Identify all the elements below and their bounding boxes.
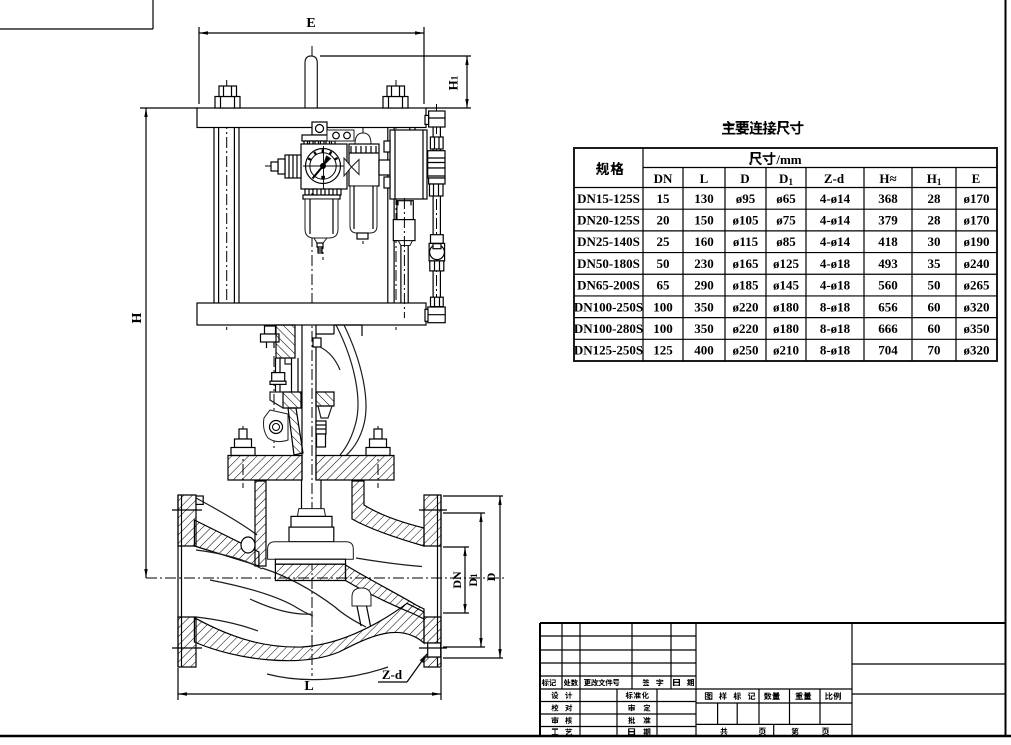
wall hole left	[241, 537, 255, 553]
left pipe bore top line	[196, 550, 262, 569]
svg-text:ø220: ø220	[733, 299, 759, 314]
svg-text:ø180: ø180	[773, 321, 799, 336]
svg-text:/mm: /mm	[775, 152, 801, 167]
tube block stack	[428, 151, 445, 184]
svg-text:8-ø18: 8-ø18	[820, 299, 851, 314]
svg-text:25: 25	[657, 234, 671, 249]
top bolt right	[383, 86, 408, 108]
svg-text:ø320: ø320	[964, 343, 990, 358]
table grid 主要连接尺寸	[574, 148, 997, 361]
svg-text:379: 379	[878, 213, 898, 228]
table data rows	[574, 191, 990, 358]
clamp bolt	[270, 358, 286, 392]
svg-text:ø220: ø220	[733, 321, 759, 336]
dimension D1	[443, 513, 485, 647]
svg-text:DN15-125S: DN15-125S	[577, 191, 640, 206]
svg-text:4-ø14: 4-ø14	[820, 234, 851, 249]
bonnet bolt left	[231, 429, 255, 456]
svg-text:ø180: ø180	[773, 299, 799, 314]
right pipe bore back wall line	[356, 558, 422, 567]
svg-text:70: 70	[928, 343, 941, 358]
svg-text:493: 493	[878, 256, 898, 271]
svg-text:50: 50	[928, 278, 941, 293]
row 设计 标准化	[552, 692, 649, 699]
plug stem lower	[302, 480, 322, 509]
tube bottom fitting	[431, 297, 444, 306]
body upper-left wall	[194, 520, 259, 566]
svg-text:H≈: H≈	[879, 171, 896, 186]
svg-text:290: 290	[694, 278, 714, 293]
centerline valve main vertical	[311, 46, 313, 676]
svg-text:ø165: ø165	[733, 256, 760, 271]
centerline clamp bolt	[273, 356, 275, 450]
svg-text:ø170: ø170	[964, 213, 990, 228]
svg-text:ø320: ø320	[964, 299, 990, 314]
positioner tube	[401, 198, 408, 318]
svg-text:ø75: ø75	[776, 213, 796, 228]
valve stem upper	[302, 325, 316, 480]
dimension D	[443, 496, 503, 658]
travel indicator	[316, 421, 326, 447]
seat diagonal wall	[346, 565, 425, 619]
tube elbow top	[425, 111, 445, 127]
svg-text:DN100-280S: DN100-280S	[574, 321, 643, 336]
tube union mid	[430, 184, 444, 196]
positioner lower blocks	[393, 201, 415, 246]
positioner body	[384, 130, 427, 199]
clamp eye	[264, 410, 289, 442]
centerline lubricator vertical	[362, 127, 364, 244]
lubricator body	[349, 144, 379, 186]
filter bowl	[303, 189, 341, 238]
svg-text:15: 15	[657, 191, 671, 206]
stem clamp right block	[316, 392, 334, 418]
svg-text:ø145: ø145	[773, 278, 800, 293]
centerline tie rod right	[395, 80, 397, 330]
svg-text:350: 350	[694, 321, 714, 336]
svg-text:4-ø18: 4-ø18	[820, 278, 851, 293]
dimension H1	[320, 56, 471, 108]
label Z-d	[378, 654, 427, 682]
lubricator dome	[355, 133, 371, 144]
svg-text:8-ø18: 8-ø18	[820, 343, 851, 358]
svg-text:400: 400	[694, 343, 714, 358]
centerline bonnet bolt right	[377, 426, 379, 488]
svg-text:ø190: ø190	[964, 234, 990, 249]
left pipe bore bottom line	[196, 617, 258, 631]
svg-text:Z-d: Z-d	[824, 171, 845, 186]
svg-text:H: H	[130, 312, 145, 323]
svg-text:65: 65	[657, 278, 671, 293]
stem guide block	[313, 325, 340, 370]
svg-text:4-ø18: 4-ø18	[820, 256, 851, 271]
svg-text:E: E	[306, 16, 315, 31]
frame top-left corner box	[0, 0, 153, 29]
frame right border	[1005, 0, 1007, 737]
clamp arm diagonal	[288, 408, 303, 455]
table header 尺寸/mm	[749, 152, 802, 167]
partition underside curve	[210, 580, 313, 616]
plug body	[268, 542, 354, 564]
table title 主要连接尺寸	[722, 121, 804, 135]
svg-text:ø125: ø125	[773, 256, 800, 271]
svg-text:150: 150	[694, 213, 714, 228]
lubricator outlet nipple	[379, 160, 390, 175]
pressure gauge	[303, 146, 345, 189]
svg-text:ø240: ø240	[964, 256, 990, 271]
centerline air tube vertical	[436, 104, 438, 300]
svg-text:4-ø14: 4-ø14	[820, 213, 851, 228]
drain boss	[352, 588, 371, 626]
svg-text:DN50-180S: DN50-180S	[577, 256, 640, 271]
revision header 标记 处数 更改文件号 签字 日期	[542, 679, 694, 686]
dimension L	[178, 668, 441, 700]
svg-text:8-ø18: 8-ø18	[820, 321, 851, 336]
svg-text:DN65-200S: DN65-200S	[577, 278, 640, 293]
svg-text:H1: H1	[446, 75, 461, 90]
centerline filter vertical	[322, 124, 324, 260]
row 图样标记 数量 重量 比例	[705, 692, 841, 700]
svg-text:ø210: ø210	[773, 343, 799, 358]
yoke hatched column	[276, 325, 298, 392]
svg-text:230: 230	[694, 256, 714, 271]
svg-text:D1: D1	[466, 573, 480, 587]
svg-text:20: 20	[657, 213, 670, 228]
svg-text:418: 418	[878, 234, 898, 249]
centerline tie rod left	[226, 80, 228, 330]
svg-text:350: 350	[694, 299, 714, 314]
bonnet flange	[228, 456, 394, 481]
svg-text:DN: DN	[450, 571, 464, 589]
plug seat ring	[275, 564, 345, 580]
stem clamp left	[270, 392, 301, 408]
tube union upper	[430, 137, 443, 149]
yoke bracket bolt left	[261, 326, 280, 348]
centerline pipe horizontal	[146, 577, 505, 579]
svg-text:ø115: ø115	[733, 234, 759, 249]
row 审核 批准	[552, 717, 651, 724]
svg-text:50: 50	[657, 256, 670, 271]
dimension H	[130, 108, 198, 578]
frame bottom border	[0, 735, 1011, 738]
svg-text:100: 100	[653, 299, 673, 314]
flange bolt hole ticks	[172, 510, 447, 648]
actuator bottom plate	[197, 303, 426, 325]
row 工艺 日期	[552, 728, 651, 735]
svg-text:DN: DN	[654, 171, 673, 186]
tube ball valve	[429, 235, 445, 271]
svg-text:E: E	[972, 171, 981, 186]
svg-text:ø95: ø95	[736, 191, 756, 206]
centerline air set gauge horizontal	[265, 165, 392, 167]
bonnet neck right and wall to right flange	[352, 481, 424, 546]
svg-text:DN20-125S: DN20-125S	[577, 213, 640, 228]
centerline bonnet bolt left	[242, 426, 244, 488]
svg-text:D: D	[740, 171, 749, 186]
bonnet neck left	[255, 481, 266, 566]
Z-d bolt hole	[428, 643, 441, 657]
left flange	[178, 495, 203, 667]
right flange	[424, 495, 441, 667]
row 校对 审定	[552, 704, 651, 711]
actuator stem cap	[305, 56, 317, 108]
svg-text:ø250: ø250	[733, 343, 759, 358]
svg-text:D: D	[484, 572, 498, 581]
body bottom shell line	[267, 667, 388, 680]
svg-text:28: 28	[928, 213, 942, 228]
svg-text:4-ø14: 4-ø14	[820, 191, 851, 206]
row 共页 第页	[720, 728, 829, 735]
svg-text:100: 100	[653, 321, 673, 336]
svg-text:H1: H1	[927, 171, 942, 187]
svg-text:ø65: ø65	[776, 191, 796, 206]
svg-text:ø350: ø350	[964, 321, 990, 336]
svg-text:ø185: ø185	[733, 278, 760, 293]
table sub-headers DN L D D1 Z-d H H1 E	[654, 171, 981, 187]
regulator inlet nipple	[271, 155, 301, 178]
title block grid	[540, 623, 1005, 736]
actuator top plate	[197, 108, 426, 128]
svg-text:ø170: ø170	[964, 191, 990, 206]
svg-text:DN100-250S: DN100-250S	[574, 299, 643, 314]
svg-text:60: 60	[928, 321, 941, 336]
dimension DN	[443, 547, 469, 613]
partition upper curve	[262, 568, 366, 627]
table header 规格	[596, 162, 624, 175]
svg-text:D1: D1	[779, 171, 793, 187]
svg-text:ø105: ø105	[733, 213, 760, 228]
tube bottom elbow	[425, 307, 445, 323]
lubricator bowl	[350, 186, 377, 239]
svg-text:35: 35	[928, 256, 942, 271]
regulator body	[301, 144, 347, 189]
plug coupling discs	[289, 509, 334, 542]
svg-text:125: 125	[653, 343, 673, 358]
svg-text:60: 60	[928, 299, 941, 314]
svg-text:DN25-140S: DN25-140S	[577, 234, 640, 249]
svg-text:368: 368	[878, 191, 898, 206]
svg-text:ø85: ø85	[776, 234, 796, 249]
body bottom wall band	[194, 603, 424, 660]
svg-text:L: L	[304, 679, 313, 694]
svg-text:30: 30	[928, 234, 941, 249]
body upper-left shell line	[196, 498, 257, 535]
regulator-lubricator link	[344, 158, 359, 176]
svg-text:L: L	[700, 171, 709, 186]
plug bowl arc	[250, 599, 313, 614]
svg-text:666: 666	[878, 321, 898, 336]
air set bracket	[302, 122, 354, 145]
tie rods right	[388, 128, 415, 304]
svg-text:160: 160	[694, 234, 714, 249]
yoke side curve	[334, 325, 366, 456]
dimension E	[199, 16, 424, 104]
svg-text:560: 560	[878, 278, 898, 293]
top bolt left	[215, 86, 240, 108]
tie rods left	[214, 128, 239, 304]
bonnet bolt right	[366, 429, 390, 456]
svg-text:ø265: ø265	[964, 278, 991, 293]
filter drain	[314, 238, 327, 253]
svg-text:704: 704	[878, 343, 898, 358]
svg-text:130: 130	[694, 191, 714, 206]
svg-text:28: 28	[928, 191, 942, 206]
air tube vertical	[433, 127, 440, 297]
svg-text:Z-d: Z-d	[382, 667, 403, 682]
svg-text:DN125-250S: DN125-250S	[574, 343, 643, 358]
svg-text:656: 656	[878, 299, 898, 314]
